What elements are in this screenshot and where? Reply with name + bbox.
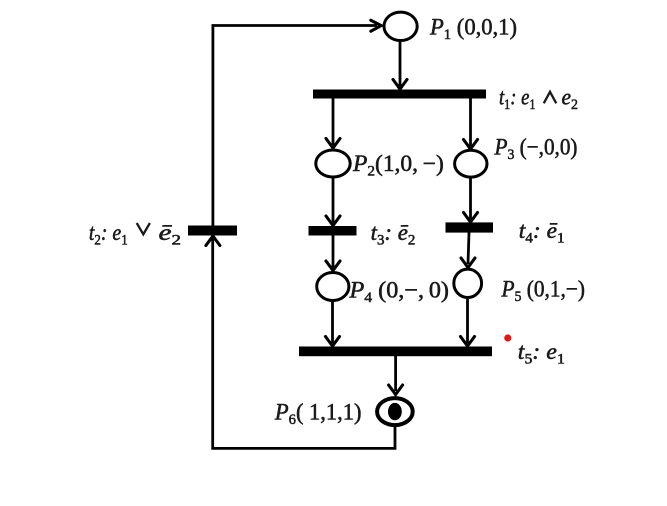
svg-text:P4 (0,−, 0): P4 (0,−, 0) — [348, 278, 449, 307]
svg-text:P2(1,0, −): P2(1,0, −) — [352, 151, 444, 180]
svg-text:P3 (−,0,0): P3 (−,0,0) — [494, 135, 578, 164]
svg-text:P1 (0,0,1): P1 (0,0,1) — [429, 15, 517, 44]
svg-text:P6( 1,1,1): P6( 1,1,1) — [274, 400, 362, 429]
svg-text:P5 (0,1,−): P5 (0,1,−) — [501, 276, 585, 305]
